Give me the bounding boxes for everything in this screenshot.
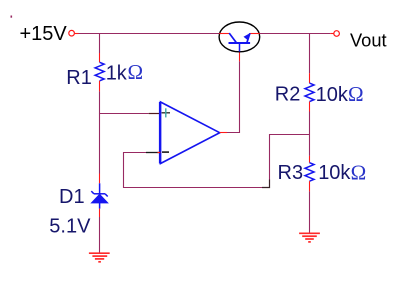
wire R3 to ground (309, 191, 311, 233)
wire node down to D1 (99, 114, 101, 174)
ground (left, under D1) (89, 253, 110, 262)
zener diode D1 (91, 183, 107, 208)
base lead (239, 43, 241, 52)
svg-text:10k: 10k (318, 162, 351, 184)
svg-text:Vout: Vout (350, 30, 387, 51)
wire feedback dark corner (262, 180, 270, 188)
pin stub op-amp minus red tip (158, 152, 161, 154)
transistor Q1 (219, 22, 260, 52)
terminal +15V (69, 30, 75, 36)
pin stub D1 top (99, 174, 101, 184)
resistor R1 (95, 62, 104, 81)
wire R1 to node (99, 91, 101, 113)
svg-text:5.1V: 5.1V (49, 216, 91, 238)
wire top rail right (260, 33, 331, 35)
wire output to transistor base (227, 61, 240, 132)
resistor R2 (305, 83, 314, 102)
wire feedback up and right to divider node (270, 135, 310, 180)
wire top rail left (79, 33, 220, 35)
wire R1 branch upper (99, 34, 101, 54)
base bar (229, 42, 251, 44)
wire R2 to node (309, 112, 311, 135)
svg-text:R3: R3 (278, 162, 304, 184)
wire node to R3 (309, 135, 311, 156)
svg-text:Ω: Ω (128, 60, 144, 84)
ground (right, under R3) (299, 233, 320, 242)
op-amp U1 (159, 102, 220, 164)
pin stub R2 bottom (309, 102, 311, 112)
pin stub op-amp output (220, 132, 227, 134)
pin stub R1 top (99, 53, 101, 62)
svg-text:1k: 1k (106, 62, 128, 84)
pin stub R3 bottom (309, 181, 311, 191)
svg-text:R1: R1 (66, 67, 92, 89)
svg-text:+15V: +15V (20, 23, 68, 45)
svg-text:Ω: Ω (348, 82, 364, 106)
pin stub op-amp minus (146, 152, 161, 154)
terminal Vout (330, 33, 333, 35)
wire to op-amp plus input (100, 113, 149, 115)
svg-text:Ω: Ω (351, 160, 367, 184)
pin stub R2 top (309, 73, 311, 83)
wire D1 to ground (99, 217, 101, 253)
svg-text:10k: 10k (316, 84, 349, 106)
wire R2 branch top (309, 34, 311, 74)
stray dot top-left (11, 16, 13, 18)
emitter pin stub (red, inside ellipse right) (250, 33, 260, 35)
svg-text:D1: D1 (59, 186, 85, 208)
plus sign (162, 112, 170, 114)
pin stub base (239, 52, 241, 62)
collector lead (229, 33, 236, 43)
svg-text:R2: R2 (275, 84, 301, 106)
collector pin stub (red, inside ellipse left) (219, 33, 229, 35)
pin stub R3 top (309, 156, 311, 163)
pin stub R1 bottom (99, 81, 101, 92)
resistor R3 (305, 163, 314, 182)
pin stub D1 bottom (99, 209, 101, 217)
wire feedback: minus input left and down (124, 153, 263, 188)
pin stub op-amp plus (149, 113, 160, 115)
minus sign (162, 151, 169, 153)
emitter lead with arrow (247, 33, 250, 43)
